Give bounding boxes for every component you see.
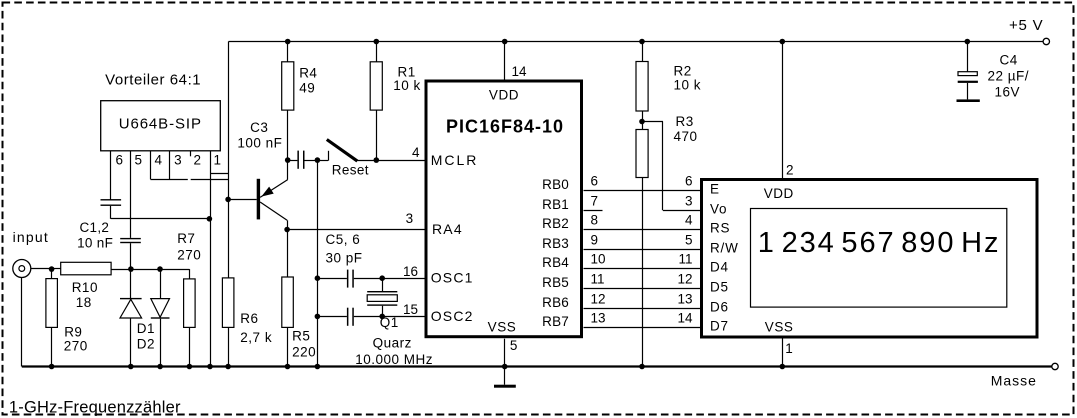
svg-text:270: 270 bbox=[64, 339, 88, 354]
svg-text:VSS: VSS bbox=[765, 320, 794, 335]
svg-text:OSC2: OSC2 bbox=[431, 308, 474, 324]
svg-text:R4: R4 bbox=[299, 66, 317, 81]
svg-text:30 pF: 30 pF bbox=[326, 251, 363, 266]
svg-text:R6: R6 bbox=[240, 311, 258, 326]
svg-text:RB5: RB5 bbox=[542, 275, 569, 290]
svg-text:5: 5 bbox=[685, 233, 693, 248]
svg-text:R10: R10 bbox=[72, 280, 98, 295]
svg-text:1 234 567 890 Hz: 1 234 567 890 Hz bbox=[758, 227, 1001, 259]
svg-text:14: 14 bbox=[512, 64, 528, 79]
svg-text:12: 12 bbox=[591, 292, 606, 307]
svg-text:2,7 k: 2,7 k bbox=[240, 330, 272, 345]
svg-text:220: 220 bbox=[292, 345, 316, 360]
svg-text:VDD: VDD bbox=[764, 186, 794, 201]
svg-text:+5 V: +5 V bbox=[1009, 17, 1043, 34]
svg-text:D1: D1 bbox=[137, 321, 155, 336]
svg-text:22 µF/: 22 µF/ bbox=[988, 69, 1030, 84]
svg-text:12: 12 bbox=[677, 272, 692, 287]
svg-text:Vorteiler 64:1: Vorteiler 64:1 bbox=[105, 72, 201, 89]
svg-text:D2: D2 bbox=[137, 337, 155, 352]
svg-text:6: 6 bbox=[116, 153, 124, 168]
svg-text:R5: R5 bbox=[292, 329, 310, 344]
svg-text:R3: R3 bbox=[676, 114, 694, 129]
svg-text:R/W: R/W bbox=[710, 241, 739, 256]
svg-text:1: 1 bbox=[785, 341, 793, 356]
svg-text:4: 4 bbox=[685, 213, 693, 228]
svg-text:R2: R2 bbox=[674, 64, 692, 79]
svg-text:7: 7 bbox=[591, 194, 599, 209]
svg-text:U664B-SIP: U664B-SIP bbox=[119, 116, 202, 133]
svg-text:8: 8 bbox=[591, 213, 599, 228]
svg-text:10.000 MHz: 10.000 MHz bbox=[355, 352, 433, 367]
svg-text:OSC1: OSC1 bbox=[431, 270, 474, 286]
svg-text:RB1: RB1 bbox=[542, 197, 569, 212]
svg-text:1-GHz-Frequenzzähler: 1-GHz-Frequenzzähler bbox=[9, 399, 181, 417]
svg-text:RB4: RB4 bbox=[542, 255, 569, 270]
svg-text:D5: D5 bbox=[710, 280, 729, 295]
svg-text:5: 5 bbox=[510, 338, 518, 353]
svg-text:1: 1 bbox=[213, 153, 221, 168]
svg-text:D4: D4 bbox=[710, 260, 729, 275]
svg-text:C4: C4 bbox=[1000, 53, 1018, 68]
svg-text:2: 2 bbox=[786, 163, 794, 178]
svg-text:270: 270 bbox=[177, 248, 201, 263]
svg-text:E: E bbox=[710, 182, 720, 197]
svg-text:RB3: RB3 bbox=[542, 236, 569, 251]
svg-text:4: 4 bbox=[412, 145, 420, 160]
svg-text:R7: R7 bbox=[177, 231, 195, 246]
svg-text:RB6: RB6 bbox=[542, 295, 569, 310]
svg-text:11: 11 bbox=[591, 272, 605, 287]
svg-text:MCLR: MCLR bbox=[431, 152, 479, 168]
svg-text:VDD: VDD bbox=[489, 88, 519, 103]
svg-text:C3: C3 bbox=[250, 120, 268, 135]
svg-text:6: 6 bbox=[591, 174, 599, 189]
svg-text:VSS: VSS bbox=[488, 320, 517, 335]
svg-text:Quarz: Quarz bbox=[373, 335, 412, 350]
svg-text:13: 13 bbox=[677, 292, 692, 307]
svg-text:470: 470 bbox=[674, 129, 698, 144]
svg-text:10 nF: 10 nF bbox=[77, 236, 113, 251]
svg-text:9: 9 bbox=[591, 233, 599, 248]
svg-text:15: 15 bbox=[403, 302, 418, 317]
svg-text:PIC16F84-10: PIC16F84-10 bbox=[446, 116, 564, 136]
svg-text:Vo: Vo bbox=[710, 202, 727, 217]
svg-text:RB7: RB7 bbox=[542, 314, 569, 329]
svg-text:R9: R9 bbox=[64, 325, 82, 340]
svg-text:16V: 16V bbox=[995, 85, 1021, 100]
svg-text:13: 13 bbox=[591, 311, 606, 326]
svg-text:D6: D6 bbox=[710, 300, 729, 315]
svg-text:18: 18 bbox=[76, 295, 92, 310]
svg-text:14: 14 bbox=[677, 311, 693, 326]
svg-text:10 k: 10 k bbox=[674, 78, 702, 93]
svg-text:RS: RS bbox=[710, 221, 730, 236]
svg-text:100 nF: 100 nF bbox=[237, 135, 282, 150]
svg-text:D7: D7 bbox=[710, 319, 729, 334]
svg-text:Masse: Masse bbox=[991, 373, 1037, 389]
svg-text:2: 2 bbox=[194, 153, 202, 168]
svg-text:Q1: Q1 bbox=[380, 315, 399, 330]
svg-text:3: 3 bbox=[685, 194, 693, 209]
svg-text:16: 16 bbox=[403, 264, 418, 279]
svg-text:RB2: RB2 bbox=[542, 216, 569, 231]
svg-text:10: 10 bbox=[591, 252, 606, 267]
svg-text:C5, 6: C5, 6 bbox=[326, 232, 361, 247]
svg-text:RA4: RA4 bbox=[432, 221, 463, 237]
svg-text:4: 4 bbox=[154, 153, 162, 168]
svg-text:11: 11 bbox=[678, 252, 692, 267]
svg-text:3: 3 bbox=[406, 211, 414, 226]
svg-text:input: input bbox=[13, 229, 49, 245]
svg-text:3: 3 bbox=[174, 153, 182, 168]
svg-text:6: 6 bbox=[685, 174, 693, 189]
svg-text:RB0: RB0 bbox=[542, 177, 569, 192]
svg-text:5: 5 bbox=[134, 153, 142, 168]
svg-text:Reset: Reset bbox=[332, 163, 369, 178]
svg-text:C1,2: C1,2 bbox=[80, 220, 110, 235]
svg-text:10 k: 10 k bbox=[393, 78, 421, 93]
svg-text:49: 49 bbox=[299, 81, 315, 96]
